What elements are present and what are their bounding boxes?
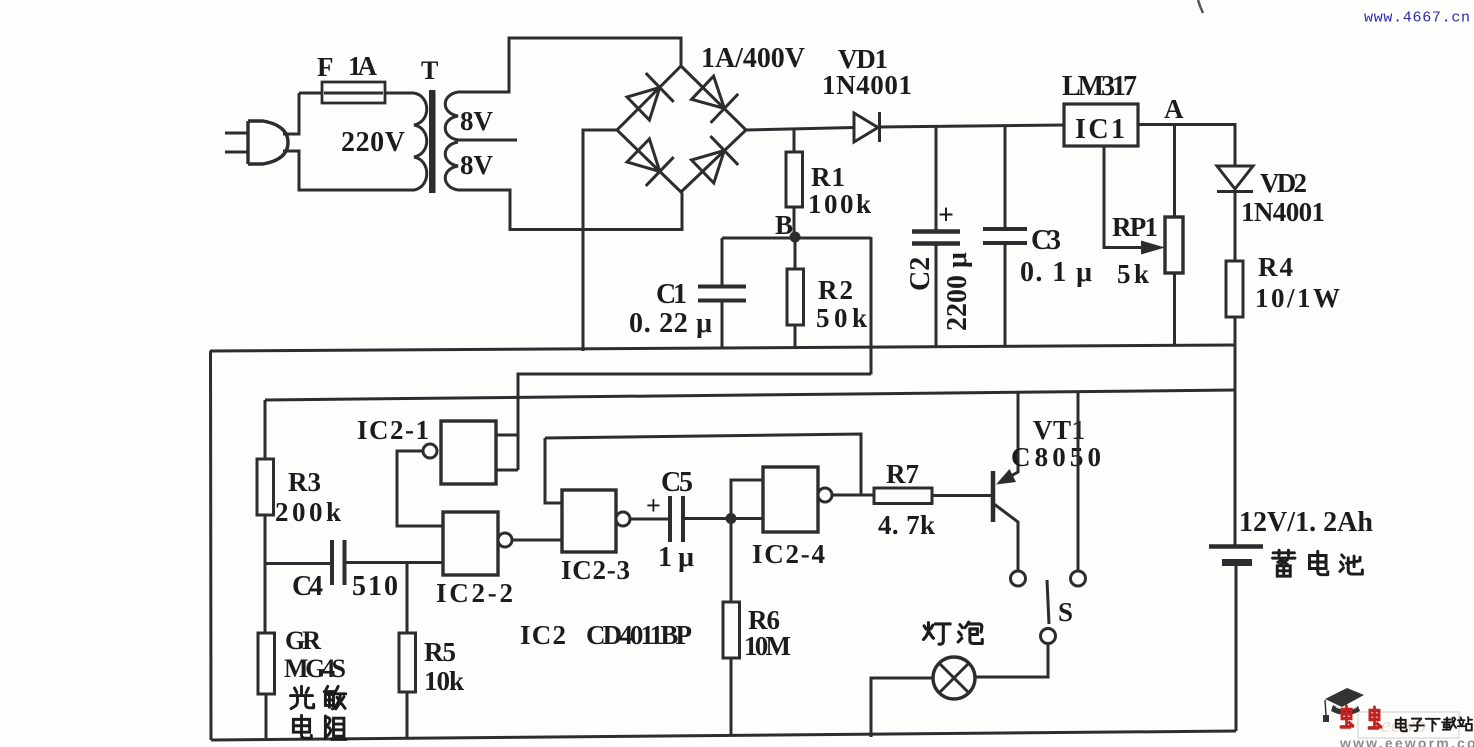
VT1 collector lead <box>994 504 1018 571</box>
svg-text:10k: 10k <box>424 666 464 696</box>
svg-text:1N4001: 1N4001 <box>1241 197 1325 227</box>
wire secondary center tap <box>455 139 517 142</box>
svg-text:510: 510 <box>352 571 398 602</box>
IC2-3 output bubble <box>616 512 630 526</box>
IC2-1 input tie stubs <box>496 435 518 470</box>
svg-text:B: B <box>775 210 793 240</box>
IC2-4 output bubble <box>818 488 832 502</box>
wire switch to lamp <box>975 644 1048 678</box>
svg-text:0. 22 μ: 0. 22 μ <box>629 308 712 339</box>
IC2-2 output bubble <box>498 533 512 547</box>
svg-text:100k: 100k <box>808 189 871 219</box>
svg-text:C5: C5 <box>661 467 693 498</box>
capacitor C5 <box>670 496 683 542</box>
wire R5 branch <box>406 563 409 634</box>
wire battery to bottom rail <box>1235 566 1238 731</box>
battery negative plate <box>1222 559 1252 566</box>
svg-text:IC1: IC1 <box>1075 114 1125 145</box>
svg-text:C4: C4 <box>292 571 323 602</box>
label guangmin photoresistor chinese <box>290 686 346 739</box>
ground rail <box>210 345 1235 351</box>
photoresistor GR <box>258 633 275 694</box>
left border wire <box>209 351 213 740</box>
switch right contact circle <box>1071 571 1086 586</box>
svg-text:10M: 10M <box>744 631 791 661</box>
diode VD1 <box>854 112 880 142</box>
transformer secondary bottom 8V winding <box>445 142 458 190</box>
wire R3 to C4 junction <box>264 515 267 564</box>
IC2-1 output bubble <box>423 444 437 458</box>
svg-text:C3: C3 <box>1031 225 1061 256</box>
svg-text:C8050: C8050 <box>1011 442 1101 472</box>
svg-text:C1: C1 <box>656 279 687 310</box>
potentiometer RP1 <box>1165 217 1183 273</box>
svg-text:200k: 200k <box>275 497 341 527</box>
bridge diode bottom-left <box>627 139 674 186</box>
label dengpao lamp chinese <box>923 622 982 644</box>
wire secondary bottom to bridge bottom <box>458 190 682 230</box>
wire VD2 to R4 <box>1234 192 1237 262</box>
svg-text:IC2: IC2 <box>520 620 566 650</box>
watermark graduation cap <box>1323 688 1364 722</box>
battery positive plate <box>1209 544 1263 549</box>
wire R6 branch <box>730 519 733 603</box>
wire secondary top to bridge top <box>458 38 681 92</box>
svg-text:F: F <box>317 52 334 82</box>
wire rail3 down to R3 <box>264 400 267 459</box>
wire IC2-4 output to R7 <box>832 494 991 498</box>
svg-text:R2: R2 <box>818 275 853 305</box>
svg-text:T: T <box>421 56 438 85</box>
resistor R6 <box>723 602 740 658</box>
gate IC2-4 box <box>763 467 818 532</box>
wire plug to fuse and primary loop <box>283 93 415 190</box>
switch S bottom contact circle <box>1041 629 1056 644</box>
resistor R3 <box>257 459 274 515</box>
VT1 emitter lead with arrow <box>999 392 1018 484</box>
svg-text:www.eeworm.com: www.eeworm.com <box>1339 735 1474 747</box>
watermark light box bottom right <box>1358 712 1459 738</box>
svg-text:CD4011BP: CD4011BP <box>586 620 692 650</box>
svg-text:2200 μ: 2200 μ <box>942 252 973 331</box>
watermark chongchong red chinese <box>1341 706 1381 728</box>
rail2 from B branch to IC2-1 inputs <box>518 374 871 470</box>
wire C5 to junction <box>683 517 731 520</box>
resistor R5 <box>399 633 416 692</box>
svg-text:50k: 50k <box>816 303 867 333</box>
svg-text:LM317: LM317 <box>1062 71 1137 102</box>
gate IC2-1 box <box>441 421 496 484</box>
RP1 wiper arrowhead <box>1141 241 1165 255</box>
bottom rail <box>211 731 1236 740</box>
svg-text:8V: 8V <box>460 150 494 180</box>
transistor VT1 base bar <box>991 471 996 522</box>
capacitor C3 <box>1004 126 1007 346</box>
resistor R2 <box>794 237 797 348</box>
top right tick mark <box>1198 0 1203 13</box>
resistor R4 <box>1226 261 1243 317</box>
svg-text:1A/400V: 1A/400V <box>701 43 805 74</box>
transformer core <box>429 90 436 193</box>
svg-text:R7: R7 <box>886 459 919 489</box>
bridge diode bottom-right <box>692 136 739 183</box>
capacitor C4 <box>332 540 345 585</box>
svg-text:1N4001: 1N4001 <box>822 70 912 100</box>
svg-text:IC2-3: IC2-3 <box>561 555 630 585</box>
svg-text:RP1: RP1 <box>1112 212 1158 242</box>
lamp bulb <box>933 657 975 699</box>
diode VD2 <box>1217 166 1253 192</box>
node B junction dot <box>790 232 801 243</box>
svg-text:MG4S: MG4S <box>284 654 346 683</box>
svg-text:4. 7k: 4. 7k <box>878 510 935 540</box>
junction dot C5/R6/IC2-4 <box>726 513 737 524</box>
wire IC2-2 output to IC2-3 <box>512 539 562 542</box>
svg-text:R1: R1 <box>811 162 845 192</box>
wire IC2-3 output to C5 <box>630 518 670 521</box>
wire GR branch <box>264 564 267 634</box>
svg-text:0. 1 μ: 0. 1 μ <box>1020 257 1092 288</box>
svg-text:VD2: VD2 <box>1260 168 1307 198</box>
wire IC2-3 upper input from feedback <box>545 438 562 503</box>
IC2-4 input tie stubs <box>731 480 763 519</box>
svg-text:5k: 5k <box>1117 259 1149 289</box>
wire node A down to RP1 <box>1173 125 1176 218</box>
main positive rail from bridge to IC1 <box>746 125 1064 130</box>
svg-text:8V: 8V <box>460 106 494 136</box>
bridge rectifier diamond <box>617 66 746 192</box>
switch S blade <box>1047 580 1049 624</box>
svg-text:+: + <box>938 200 954 231</box>
svg-text:12V/1. 2Ah: 12V/1. 2Ah <box>1239 507 1373 538</box>
wire IC2-1 output to IC2-2 input <box>397 451 443 526</box>
resistor R1 <box>793 128 796 237</box>
AC plug <box>225 121 288 164</box>
gate IC2-2 box <box>443 512 498 575</box>
VT1 collector terminal circle <box>1011 571 1026 586</box>
wire IC1 adj pin to RP1 wiper <box>1104 146 1145 248</box>
bridge diode top-right <box>692 76 739 123</box>
svg-text:C2: C2 <box>905 257 936 291</box>
rail3 +12V logic rail <box>265 390 1236 400</box>
capacitor C1 <box>721 238 724 348</box>
svg-text:10/1W: 10/1W <box>1255 283 1340 313</box>
watermark dianzixiazaizhan chinese <box>1396 717 1472 731</box>
svg-text:GR: GR <box>285 626 321 655</box>
svg-text:S: S <box>1058 597 1073 627</box>
svg-text:1A: 1A <box>348 51 378 81</box>
wire B branch down to logic rail <box>870 237 873 375</box>
transformer T primary winding <box>414 93 427 190</box>
label dianzu chinese <box>293 715 311 738</box>
wire bridge left corner to ground rail <box>583 130 617 351</box>
transformer secondary top 8V winding <box>445 92 458 140</box>
wire fuse row <box>299 92 414 95</box>
svg-text:R3: R3 <box>288 467 321 497</box>
wire lamp to bottom rail <box>871 678 933 737</box>
capacitor C2 electrolytic <box>935 127 938 347</box>
svg-text:www.4667.cn: www.4667.cn <box>1364 10 1471 27</box>
svg-text:R4: R4 <box>1258 252 1293 282</box>
feedback wire IC2-3 input to IC2-4 output <box>545 434 861 495</box>
resistor R7 <box>874 488 932 504</box>
IC1 LM317 box <box>1064 104 1138 146</box>
fuse F 1A <box>322 82 385 103</box>
svg-text:+: + <box>646 491 661 520</box>
label xumingdianchi battery chinese <box>1273 550 1363 576</box>
bridge diode top-left <box>627 73 674 120</box>
svg-text:R5: R5 <box>424 637 456 667</box>
wire IC1 out to node A corner <box>1138 125 1235 167</box>
wire R4 down to battery <box>1234 317 1237 545</box>
svg-text:A: A <box>1164 94 1184 124</box>
gate IC2-3 box <box>562 490 616 552</box>
wire C4 row <box>265 563 443 564</box>
wire node B horizontals <box>722 237 871 240</box>
svg-text:1 μ: 1 μ <box>658 542 694 573</box>
svg-text:220V: 220V <box>341 127 405 158</box>
wire rail3 down to switch right contact <box>1077 391 1080 572</box>
